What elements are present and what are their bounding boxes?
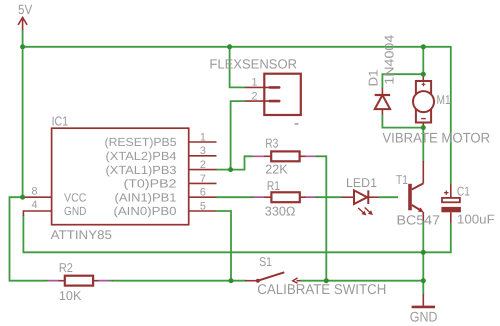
- svg-text:C1: C1: [457, 184, 470, 199]
- svg-text:22K: 22K: [265, 161, 288, 176]
- pin 7 (T0)PB2: [124, 173, 217, 191]
- node PB0 switch: [229, 278, 234, 283]
- node motor top: [421, 72, 426, 77]
- svg-text:4: 4: [31, 199, 37, 211]
- resistor R1: [250, 178, 319, 219]
- svg-text:(XTAL2)PB4: (XTAL2)PB4: [106, 149, 177, 163]
- svg-text:GND: GND: [410, 309, 438, 325]
- svg-text:(AIN0)PB0: (AIN0)PB0: [114, 204, 177, 218]
- flex sensor connector SV1 box: [209, 57, 300, 115]
- svg-text:R3: R3: [265, 136, 278, 151]
- svg-text:LED1: LED1: [346, 175, 377, 190]
- svg-text:2: 2: [200, 159, 206, 171]
- wire 5V rail down to flexsensor pin1: [230, 47, 245, 88]
- svg-text:VCC: VCC: [64, 190, 87, 204]
- node rail flexsensor: [227, 44, 232, 49]
- capacitor C1 100uF: [441, 184, 495, 227]
- wire ground row down to switch row: [422, 252, 424, 280]
- wire IC pin2 to node: [217, 169, 231, 171]
- node PB3: [228, 167, 233, 172]
- svg-text:3: 3: [200, 145, 206, 157]
- pin 3 (XTAL2)PB4: [106, 145, 217, 163]
- svg-text:1: 1: [251, 77, 257, 89]
- wire IC pin6 to R1 left: [217, 196, 252, 198]
- IC1 ATTINY85 box: [51, 113, 189, 241]
- node VCC: [20, 195, 25, 200]
- flexsensor minus mark: [295, 123, 299, 125]
- wire ground row from IC pin4 to C1 bottom: [23, 215, 450, 252]
- node emitter ground: [421, 250, 426, 255]
- svg-text:M1: M1: [437, 92, 451, 107]
- wire emitter down to ground row: [422, 221, 424, 252]
- svg-text:(AIN1)PB1: (AIN1)PB1: [115, 190, 177, 204]
- svg-text:2: 2: [251, 91, 257, 103]
- transistor T1 BC547: [396, 161, 440, 228]
- svg-text:(T0)PB2: (T0)PB2: [124, 177, 177, 191]
- svg-text:BC547: BC547: [397, 213, 441, 228]
- wire left vertical from 5V arrow to VCC node: [22, 30, 24, 197]
- svg-text:5: 5: [200, 200, 206, 212]
- LED LED1: [341, 175, 379, 216]
- resistor R3: [250, 136, 319, 177]
- wire motor bottom node down to collector: [422, 128, 424, 162]
- ground symbol GND: [410, 294, 438, 325]
- wire PB3 node to R3 left: [231, 156, 252, 169]
- pin 4 GND: [23, 199, 86, 218]
- svg-text:R1: R1: [267, 178, 280, 193]
- pin 8 VCC: [23, 185, 86, 204]
- svg-text:FLEXSENSOR: FLEXSENSOR: [209, 57, 297, 72]
- svg-text:(RESET)PB5: (RESET)PB5: [105, 135, 177, 149]
- node GND column: [421, 278, 426, 283]
- wire R1 right to LED anode: [317, 196, 342, 198]
- svg-text:T1: T1: [396, 172, 408, 187]
- wire motor node to D1 top: [382, 74, 423, 88]
- pin 1 (RESET)PB5: [105, 131, 217, 149]
- svg-text:10K: 10K: [59, 288, 82, 303]
- wire IC pin5 down to switch row: [217, 211, 232, 281]
- switch S1: [245, 254, 386, 298]
- wire D1 bottom to motor bottom node: [382, 115, 423, 128]
- flexsensor pin 2: [245, 91, 270, 103]
- wire S1 right to GND column: [300, 280, 423, 282]
- flexsensor pin 1: [245, 77, 270, 89]
- svg-text:1: 1: [200, 131, 206, 143]
- motor M1: [382, 75, 490, 146]
- node motor bottom: [421, 125, 426, 130]
- svg-text:7: 7: [200, 173, 206, 185]
- diode D1 1N4004: [365, 35, 396, 115]
- svg-text:R2: R2: [59, 260, 73, 275]
- svg-text:CALIBRATE SWITCH: CALIBRATE SWITCH: [257, 282, 386, 298]
- resistor R2: [45, 260, 114, 303]
- wire R3 right down to switch row: [317, 156, 327, 280]
- supply symbol 5V: [18, 2, 32, 31]
- svg-text:S1: S1: [259, 254, 272, 269]
- svg-text:IC1: IC1: [52, 113, 69, 128]
- wire 5V rail top and drop to C1 top: [23, 47, 451, 184]
- wire LED cathode to T1 base: [379, 196, 398, 198]
- node rail motor: [421, 44, 426, 49]
- wire GND column stub: [422, 281, 424, 295]
- svg-text:VIBRATE MOTOR: VIBRATE MOTOR: [382, 130, 490, 146]
- svg-text:1N4004: 1N4004: [381, 35, 396, 85]
- node R3 switch row: [324, 278, 329, 283]
- svg-text:6: 6: [200, 187, 206, 199]
- pin 2 (XTAL1)PB3: [106, 159, 217, 177]
- pin 6 (AIN1)PB1: [115, 187, 217, 205]
- wire VCC node to R2 left: [10, 197, 47, 281]
- pin 5 (AIN0)PB0: [114, 200, 217, 218]
- wire rail to motor top node: [422, 47, 424, 74]
- svg-text:ATTINY85: ATTINY85: [51, 228, 112, 242]
- node rail left: [20, 44, 25, 49]
- svg-text:(XTAL1)PB3: (XTAL1)PB3: [106, 163, 177, 177]
- svg-text:330Ω: 330Ω: [265, 203, 296, 218]
- svg-text:D1: D1: [365, 70, 380, 87]
- wire flexsensor pin2 down to PB3 node: [231, 101, 245, 170]
- svg-text:8: 8: [31, 185, 37, 197]
- svg-text:5V: 5V: [18, 2, 32, 17]
- svg-text:GND: GND: [64, 204, 86, 218]
- svg-text:100uF: 100uF: [457, 212, 495, 227]
- wire R2 right to S1 left: [113, 280, 246, 282]
